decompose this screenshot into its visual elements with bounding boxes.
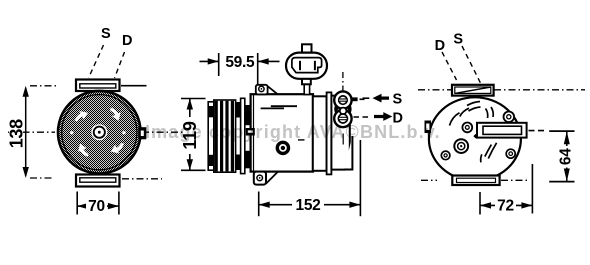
connector body — [286, 53, 327, 79]
rear plate — [327, 92, 332, 174]
fitting pinch marks — [334, 106, 351, 113]
pulley side: front strip — [208, 98, 250, 173]
leader D — [115, 52, 125, 78]
dimension 70 — [77, 192, 119, 215]
bottom bracket rear — [452, 176, 499, 186]
svg-text:72: 72 — [497, 198, 514, 215]
shaft nut center-left — [454, 139, 468, 153]
bolt upper right — [504, 112, 515, 123]
connector stem — [304, 79, 309, 95]
electrical connector — [286, 44, 327, 94]
pulley ribs — [214, 100, 236, 172]
centerline horizontal mid right — [142, 131, 191, 133]
flow arrow D — [374, 111, 403, 127]
port S circle — [334, 91, 351, 108]
leader D rear — [442, 52, 457, 80]
top-left eye — [256, 85, 268, 95]
connector top tab — [302, 44, 312, 53]
top bracket — [76, 80, 120, 92]
connector inner outline — [292, 58, 322, 73]
svg-text:152: 152 — [296, 197, 321, 214]
port D circle — [334, 110, 351, 127]
body step lines — [271, 105, 297, 107]
dimension 138 text — [7, 115, 27, 153]
compressor body — [246, 85, 353, 185]
side white dots — [70, 131, 73, 134]
bolt lower right — [506, 149, 515, 158]
left tab rear view — [425, 121, 432, 134]
dimension 152 — [259, 140, 361, 216]
leader S — [89, 45, 104, 78]
svg-text:138: 138 — [7, 119, 27, 148]
small diamond marker — [473, 134, 478, 139]
fitting block (ports) — [334, 72, 369, 145]
svg-text:D: D — [435, 38, 445, 54]
svg-text:S: S — [393, 92, 403, 108]
svg-text:70: 70 — [88, 198, 105, 215]
rear head — [331, 96, 349, 170]
rear section line — [313, 96, 327, 171]
label plate — [477, 123, 527, 138]
bolt lower left — [441, 151, 450, 160]
center bolt — [277, 142, 288, 153]
hub blocks — [245, 105, 251, 125]
sensor box on body left edge — [246, 128, 255, 136]
decorative arcs — [450, 102, 497, 163]
top bracket rear — [452, 85, 494, 96]
dimension 138 line — [25, 88, 27, 176]
svg-text:S: S — [453, 32, 463, 48]
svg-text:64: 64 — [558, 148, 575, 165]
svg-text:D: D — [122, 33, 132, 49]
clutch gap blocks — [236, 102, 241, 118]
port centerline vertical — [342, 72, 344, 91]
bottom-left lug — [254, 172, 266, 185]
port D leader dashes — [354, 116, 370, 118]
dimension 64 — [529, 131, 575, 182]
dimension 72 — [480, 164, 532, 215]
watermark — [145, 122, 441, 143]
centerline horizontal mid left — [8, 131, 55, 133]
svg-text:59.5: 59.5 — [225, 54, 255, 71]
rear body circle — [429, 97, 521, 180]
svg-text:S: S — [101, 26, 111, 42]
centerline horizontal bottom — [421, 179, 530, 181]
dimension 119 — [181, 99, 206, 171]
pulley disc — [58, 91, 141, 174]
centerline segment right of top bracket — [121, 85, 147, 87]
pulley inner ring — [62, 95, 137, 170]
connector bottom tab — [302, 79, 311, 85]
dimension 59.5 — [200, 53, 280, 88]
rear lower flange — [344, 136, 352, 170]
centerline bottom bracket right — [122, 178, 162, 180]
connector pins — [299, 61, 301, 70]
right side tab — [139, 128, 146, 139]
centerline horizontal top — [418, 89, 585, 91]
port centerline stub below — [342, 134, 344, 145]
clutch plate — [241, 98, 245, 173]
rotation arrows (white) on pulley — [70, 107, 125, 156]
hub center — [91, 124, 107, 140]
bottom bracket — [76, 175, 120, 187]
flow arrow S — [363, 92, 403, 108]
port S bolt stub — [352, 97, 358, 101]
centerline top left — [30, 85, 57, 87]
bolt upper middle — [462, 123, 472, 133]
centerline bottom left — [30, 177, 54, 179]
leader S rear — [462, 46, 481, 83]
